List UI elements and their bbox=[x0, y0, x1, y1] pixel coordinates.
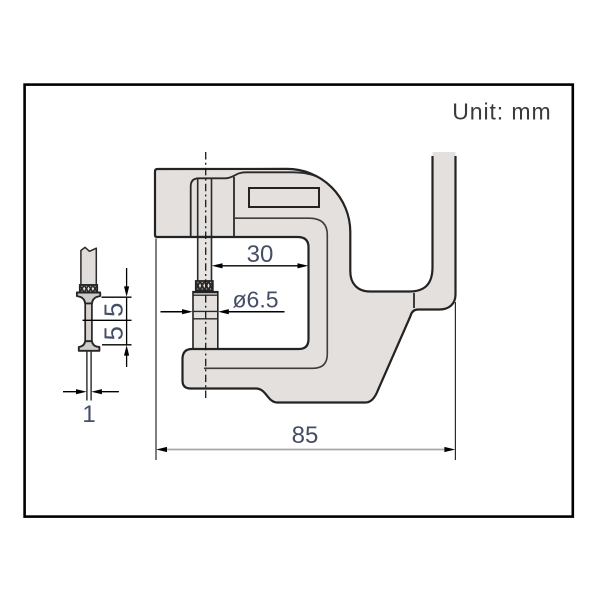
svg-text:5: 5 bbox=[101, 326, 129, 340]
svg-text:85: 85 bbox=[292, 422, 319, 449]
svg-text:Unit: mm: Unit: mm bbox=[452, 98, 551, 124]
svg-text:5: 5 bbox=[101, 303, 129, 317]
svg-text:ø6.5: ø6.5 bbox=[232, 286, 278, 312]
svg-text:30: 30 bbox=[247, 241, 274, 268]
svg-text:1: 1 bbox=[82, 401, 95, 428]
